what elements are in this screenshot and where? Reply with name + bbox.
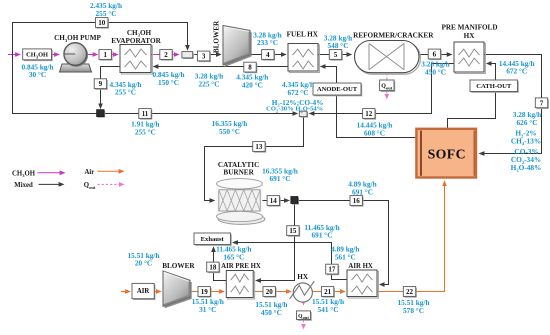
svg-text:REFORMER/CRACKER: REFORMER/CRACKER	[353, 31, 434, 39]
svg-text:CH3​OH PUMP: CH3​OH PUMP	[54, 34, 101, 43]
node stream box 4 (stream 4)	[262, 50, 276, 61]
svg-text:10: 10	[98, 19, 106, 27]
value label stream 2 flow	[152, 70, 184, 87]
node stream box 10 (stream 10)	[96, 18, 110, 29]
svg-text:BLOWER: BLOWER	[213, 20, 221, 53]
svg-text:691 °C: 691 °C	[270, 174, 291, 183]
wire air box to blower	[154, 291, 161, 293]
node stream box 2 (stream 2)	[160, 50, 173, 61]
catalytic burner vessel	[217, 179, 265, 225]
svg-text:4: 4	[266, 51, 270, 59]
wire stream 1 pump to box	[87, 54, 98, 56]
svg-text:2: 2	[164, 51, 168, 59]
svg-text:450 °C: 450 °C	[261, 308, 282, 317]
svg-text:SOFC: SOFC	[428, 147, 466, 162]
wire stream 6 box to pre manifold hx	[440, 54, 452, 56]
svg-text:AIR: AIR	[137, 288, 150, 295]
value label stream 20 flow	[255, 300, 287, 317]
svg-text:HX: HX	[297, 273, 309, 281]
svg-text:Qout​: Qout​	[298, 313, 309, 320]
fuel cell SOFC	[416, 129, 476, 178]
node stream box 21 (stream 21)	[321, 287, 335, 298]
node stream box 13 (stream 13)	[253, 142, 267, 153]
wire stream 18 air pre hx to exhaust	[214, 247, 227, 280]
value label stream 14 flow	[262, 166, 298, 183]
svg-text:8: 8	[248, 64, 252, 72]
node stream box 7 (stream 7)	[535, 98, 549, 109]
svg-text:691 °C: 691 °C	[352, 187, 373, 196]
svg-text:225 °C: 225 °C	[199, 79, 220, 88]
value label stream 3 flow	[195, 72, 223, 89]
svg-text:6: 6	[433, 51, 437, 59]
wire stream 9 evaporator to splitter	[101, 67, 121, 109]
heat exchanger AIR PRE HX	[226, 271, 254, 300]
svg-text:31 °C: 31 °C	[199, 305, 216, 314]
value label stream 8 flow	[236, 73, 268, 90]
wire stream 19 blower to air pre hx	[190, 291, 224, 293]
svg-text:CATALYTIC: CATALYTIC	[218, 161, 259, 169]
svg-text:H2​O-48%: H2​O-48%	[511, 163, 542, 173]
legend CH3OH	[12, 170, 65, 178]
svg-text:16: 16	[353, 197, 361, 205]
wire Qout reformer upper dash	[386, 73, 388, 79]
wire stream 21 hx to air hx	[312, 291, 345, 293]
wire anode-out sofc to fuel hx	[321, 67, 417, 138]
wire stream 2 box to mixer	[172, 54, 179, 56]
wire stream 5 fuel hx to box	[318, 54, 329, 56]
svg-text:165 °C: 165 °C	[223, 252, 244, 261]
node label box CATH-OUT	[470, 80, 519, 93]
value label stream 10 flow	[90, 1, 122, 18]
value label stream 5 flow	[324, 33, 352, 50]
svg-text:17: 17	[328, 266, 336, 274]
node label box Exhaust	[194, 233, 232, 246]
svg-text:Exhaust: Exhaust	[201, 236, 225, 243]
svg-text:18: 18	[209, 264, 217, 272]
value label feed flow	[21, 62, 53, 79]
node stream box 15 (stream 15)	[287, 226, 300, 237]
value label stream 21 flow	[312, 297, 344, 314]
svg-text:561 °C: 561 °C	[335, 252, 356, 261]
svg-text:691 °C: 691 °C	[312, 231, 333, 240]
value label stream 15 flow	[304, 223, 339, 240]
svg-text:578 °C: 578 °C	[403, 306, 424, 315]
wire stream 10 splitter to top rail to mixer	[13, 23, 188, 114]
svg-text:Qout​: Qout​	[84, 182, 96, 190]
svg-text:HX: HX	[464, 32, 476, 40]
junction mixer streams 2+10	[182, 52, 194, 59]
value label stream 11 flow	[131, 120, 159, 137]
wire stream 20 air pre hx to hx	[253, 291, 291, 293]
wire stream 8 fuel hx to evaporator	[154, 66, 289, 68]
heat exchanger PRE MANIFOLD HX	[454, 42, 485, 74]
junction mixer streams 11+12	[299, 111, 308, 117]
svg-text:CH4​-13%: CH4​-13%	[511, 136, 541, 146]
svg-text:672 °C: 672 °C	[288, 88, 309, 97]
svg-text:672 °C: 672 °C	[506, 67, 527, 76]
svg-text:Qout​: Qout​	[381, 84, 393, 91]
value label stream 13 flow	[212, 119, 248, 136]
svg-text:13: 13	[255, 143, 263, 151]
svg-text:5: 5	[334, 51, 338, 59]
node stream box 6 (stream 6)	[428, 49, 441, 60]
node stream box 16 (stream 16)	[350, 196, 364, 207]
svg-text:20 °C: 20 °C	[135, 259, 152, 268]
wire stream 17 air hx to exhaust	[233, 243, 347, 280]
value label stream 22 flow	[397, 298, 429, 315]
wire stream 11 splitter to mixer	[104, 113, 297, 115]
label CATALYTIC BURNER	[218, 161, 259, 177]
wire stream 3 box to blower	[209, 54, 221, 56]
svg-text:AIR HX: AIR HX	[348, 263, 372, 270]
wire stream 3 mixer to box	[194, 54, 199, 56]
value label stream 18 flow	[216, 245, 251, 262]
junction splitter stream 9 to 10/11	[97, 110, 106, 118]
wire CH3OH feed inlet	[8, 54, 20, 56]
svg-text:255 °C: 255 °C	[96, 9, 117, 18]
wire Qout reformer lower dash	[386, 91, 388, 98]
heat exchanger AIR HX	[347, 270, 378, 298]
node stream box 20 (stream 20)	[263, 287, 277, 298]
value label stream 7 composition	[511, 129, 542, 173]
wire Qout hx upper dash	[303, 301, 305, 305]
svg-text:22: 22	[406, 288, 414, 296]
svg-text:255 °C: 255 °C	[115, 88, 136, 97]
svg-text:7: 7	[540, 99, 544, 107]
value label stream 12 flow	[357, 121, 393, 138]
blower fuel (top)	[223, 26, 252, 67]
svg-text:FUEL HX: FUEL HX	[287, 30, 319, 38]
wire stream 2 evaporator to box	[151, 54, 160, 56]
svg-text:CO2​-30% H2​O-54%: CO2​-30% H2​O-54%	[266, 106, 323, 114]
node stream box 18 (stream 18)	[207, 262, 221, 273]
wire Qout hx lower dash	[303, 320, 305, 329]
value label stream 4 flow	[253, 30, 281, 47]
node label box AIR feed	[132, 283, 155, 300]
reformer cracker vessel	[355, 41, 421, 75]
svg-text:3: 3	[202, 53, 206, 61]
value label stream 19 flow	[192, 297, 224, 314]
node stream box 5 (stream 5)	[329, 50, 343, 61]
svg-text:233 °C: 233 °C	[257, 38, 278, 47]
node stream box 9 (stream 9)	[94, 79, 108, 90]
value label anode-out flow	[282, 80, 314, 97]
pump CH3OH PUMP	[60, 43, 92, 72]
wire stream 13 mixer to burner	[205, 117, 304, 201]
wire air inlet	[121, 291, 130, 293]
wire stream 6 reformer to box	[419, 54, 428, 56]
node stream box 11 (stream 11)	[139, 109, 152, 120]
svg-text:550 °C: 550 °C	[219, 127, 240, 136]
svg-text:BLOWER: BLOWER	[162, 262, 195, 270]
node label box CH3OH feed	[23, 49, 53, 61]
wire stream 7 pre manifold to sofc	[480, 55, 542, 154]
svg-text:255 °C: 255 °C	[135, 127, 156, 136]
svg-text:20: 20	[266, 288, 274, 296]
svg-text:BURNER: BURNER	[223, 169, 254, 177]
value label air feed flow	[127, 251, 159, 268]
svg-text:15: 15	[289, 227, 297, 235]
node stream box 3 (stream 3)	[197, 51, 211, 62]
value label stream 7 flow	[513, 110, 541, 127]
wire stream 12 pre manifold to mixer	[310, 64, 455, 114]
legend Qout	[84, 182, 124, 190]
node stream box 19 (stream 19)	[198, 287, 212, 298]
heat exchanger FUEL HX	[288, 44, 319, 73]
wire cath-out sofc to pre manifold hx	[448, 64, 496, 129]
svg-text:9: 9	[99, 80, 103, 88]
wire stream 4 blower to box	[250, 54, 262, 56]
node stream box 12 (stream 12)	[363, 109, 377, 120]
value label stream 6 flow	[421, 60, 449, 77]
heat exchanger CH3OH EVAPORATOR	[120, 45, 152, 75]
svg-text:450 °C: 450 °C	[425, 67, 446, 76]
svg-text:420 °C: 420 °C	[242, 80, 263, 89]
label CH3OH EVAPORATOR	[111, 29, 161, 45]
value label stream 16 flow	[348, 180, 376, 197]
svg-text:150 °C: 150 °C	[158, 78, 179, 87]
wire stream 22 air hx to sofc	[377, 181, 445, 291]
svg-text:CH3​OH: CH3​OH	[12, 170, 36, 178]
svg-text:541 °C: 541 °C	[318, 305, 339, 314]
wire stream 4 box to fuel hx	[274, 54, 286, 56]
legend Mixed	[14, 182, 63, 189]
svg-text:CH3​OH: CH3​OH	[26, 52, 48, 60]
svg-text:AIR PRE HX: AIR PRE HX	[221, 263, 261, 270]
node stream box 8 (stream 8)	[244, 62, 257, 73]
value label stream 17 flow	[331, 245, 359, 262]
value label cath-out flow	[499, 59, 535, 76]
svg-text:626 °C: 626 °C	[517, 118, 538, 127]
node label box ANODE-OUT	[313, 83, 362, 96]
node stream box 1 (stream 1)	[99, 50, 113, 61]
svg-text:12: 12	[365, 110, 373, 118]
junction splitter stream 14 to 15/16	[291, 197, 299, 205]
svg-text:548 °C: 548 °C	[328, 41, 349, 50]
value label anode-out composition	[266, 98, 323, 114]
svg-text:11: 11	[142, 110, 149, 118]
svg-text:Mixed: Mixed	[14, 182, 33, 189]
svg-text:1: 1	[103, 51, 107, 59]
heat exchanger HX (circle)	[290, 281, 315, 302]
svg-text:608 °C: 608 °C	[364, 128, 385, 137]
blower air (bottom)	[163, 271, 192, 308]
node stream box 17 (stream 17)	[326, 264, 339, 275]
wire stream 16 splitter to air hx	[298, 201, 389, 285]
node label box Qout reformer	[380, 80, 396, 92]
svg-text:21: 21	[324, 288, 332, 296]
wire stream 14 burner to splitter	[262, 200, 289, 202]
svg-text:Air: Air	[85, 169, 95, 176]
wire stream 15 splitter to air pre hx	[256, 202, 295, 280]
svg-text:PRE MANIFOLD: PRE MANIFOLD	[441, 24, 497, 32]
node stream box 14 (stream 14)	[267, 196, 281, 207]
label PRE MANIFOLD HX	[441, 24, 497, 40]
legend Air	[85, 169, 124, 176]
svg-text:ANODE-OUT: ANODE-OUT	[317, 86, 358, 93]
svg-text:EVAPORATOR: EVAPORATOR	[111, 37, 161, 45]
wire stream 1 box to evaporator	[112, 54, 118, 56]
wire stream 5 box to reformer	[342, 54, 352, 56]
value label stream 9 flow	[109, 80, 141, 97]
node label box Qout hx	[297, 311, 312, 321]
svg-text:14: 14	[270, 197, 278, 205]
node stream box 22 (stream 22)	[403, 287, 417, 298]
wire CH3OH box to pump	[52, 54, 60, 56]
svg-text:CATH-OUT: CATH-OUT	[476, 83, 512, 90]
svg-text:19: 19	[201, 288, 209, 296]
svg-text:30 °C: 30 °C	[29, 70, 46, 79]
